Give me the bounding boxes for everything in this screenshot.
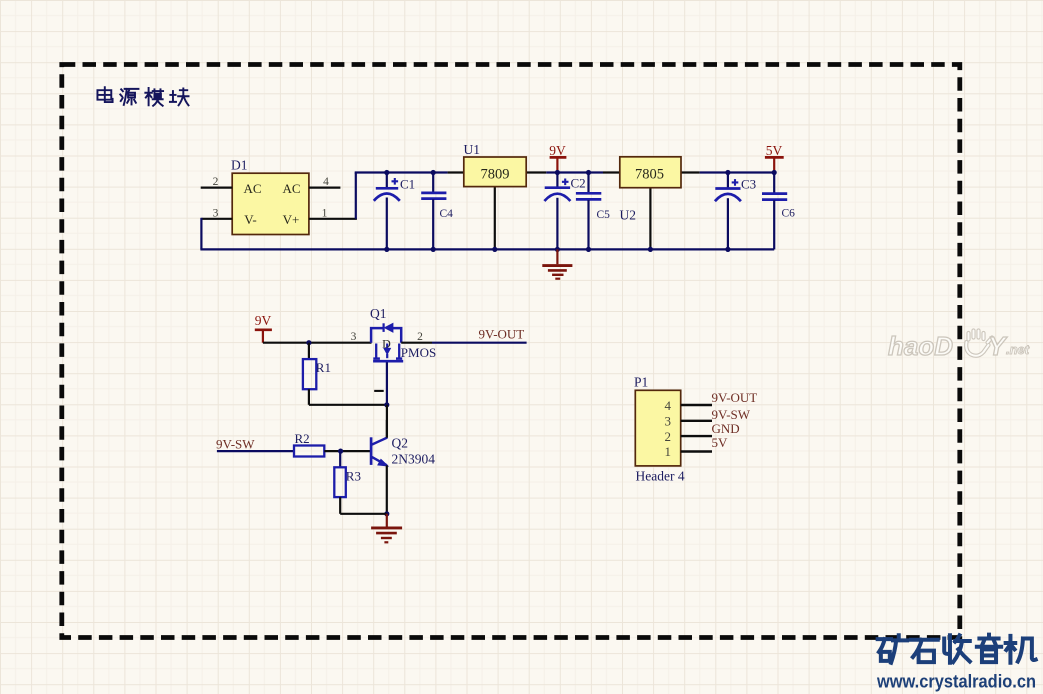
svg-text:V-: V-	[244, 212, 257, 227]
transistor Q2 2N3904	[371, 435, 435, 466]
svg-text:Y: Y	[988, 331, 1008, 361]
net label 5V (P1)	[712, 435, 729, 450]
svg-text:www.crystalradio.cn: www.crystalradio.cn	[876, 672, 1036, 692]
svg-text:5V: 5V	[712, 435, 729, 450]
svg-text:Q1: Q1	[370, 306, 387, 321]
svg-text:C1: C1	[400, 176, 415, 191]
svg-text:R3: R3	[346, 469, 361, 484]
power port 5V	[765, 143, 784, 175]
D1 pin 3	[201, 207, 232, 219]
wire Q1 gate down to Q2 collector	[386, 362, 388, 437]
svg-text:9V: 9V	[255, 313, 272, 328]
svg-text:9V: 9V	[549, 143, 566, 158]
svg-text:5V: 5V	[766, 143, 783, 158]
net label GND (P1)	[712, 421, 740, 436]
net label 9V-SW	[216, 437, 255, 452]
svg-text:9V-SW: 9V-SW	[216, 437, 255, 452]
wire top rail segment B	[546, 171, 603, 173]
D1 pin 2	[201, 176, 233, 188]
watermark haoboy.net	[888, 331, 1030, 362]
svg-text:U2: U2	[620, 208, 637, 223]
D1 pin 4	[309, 176, 341, 188]
voltage regulator U1 7809	[448, 142, 547, 252]
net label 9V-OUT	[479, 326, 525, 341]
wire R2 to Q2 base	[324, 449, 370, 454]
svg-text:R2: R2	[295, 431, 310, 446]
wire R3 bottom to emitter node	[340, 513, 387, 515]
P1 pin 2	[681, 435, 712, 437]
bottom-right logo 矿石收音机	[878, 635, 1036, 663]
svg-text:9V-OUT: 9V-OUT	[479, 326, 525, 341]
svg-text:4: 4	[323, 176, 329, 188]
svg-text:Header 4: Header 4	[636, 469, 685, 484]
net label 9V-OUT (P1)	[712, 390, 758, 405]
wire R1 bottom to gate node	[309, 402, 390, 407]
capacitor C5	[576, 170, 610, 252]
wire D1 pin1 up to top rail	[355, 173, 357, 219]
resistor R1	[303, 343, 331, 405]
P1 pin 1	[681, 450, 712, 452]
wire 9V to Q1 pin 3	[263, 331, 372, 346]
title 电源模块	[97, 87, 188, 106]
sheet dashed border frame	[62, 65, 960, 638]
power port 9V (lower)	[255, 313, 272, 343]
svg-text:2: 2	[213, 176, 219, 188]
svg-text:7809: 7809	[481, 167, 510, 183]
power port 9V (top)	[549, 143, 566, 175]
wire top rail segment C	[700, 171, 775, 173]
P1 pin 4	[681, 404, 712, 406]
svg-text:U1: U1	[464, 142, 481, 157]
svg-text:AC: AC	[243, 181, 261, 196]
svg-text:PMOS: PMOS	[401, 345, 436, 360]
capacitor C4	[421, 170, 453, 252]
svg-text:D1: D1	[231, 158, 248, 173]
svg-text:2N3904: 2N3904	[392, 451, 436, 466]
svg-text:Q2: Q2	[392, 435, 409, 450]
svg-text:AC: AC	[282, 181, 300, 196]
wire Q1 pin 2 to 9V-OUT	[401, 331, 526, 343]
svg-text:C6: C6	[782, 208, 796, 220]
capacitor C1	[374, 170, 415, 252]
bottom-right url www.crystalradio.cn	[876, 672, 1036, 692]
bridge rectifier D1	[231, 158, 309, 235]
svg-text:4: 4	[665, 398, 672, 413]
Q2 collector pin	[386, 420, 388, 438]
svg-text:GND: GND	[712, 421, 740, 436]
wire bottom rail	[200, 248, 774, 250]
connector P1 Header 4	[634, 375, 685, 484]
svg-text:2: 2	[665, 429, 672, 444]
transistor Q1 PMOS	[370, 306, 436, 361]
wire D1 pin3 down to bottom rail	[200, 218, 202, 250]
svg-text:.net: .net	[1006, 342, 1030, 357]
ground (top, below C2)	[542, 249, 572, 278]
svg-text:V+: V+	[283, 212, 300, 227]
net label 9V-SW (P1)	[712, 407, 751, 422]
svg-text:D: D	[382, 336, 391, 350]
capacitor C2	[544, 173, 585, 252]
capacitor C6	[762, 173, 795, 250]
dash mark near gate	[374, 390, 384, 392]
svg-text:1: 1	[665, 444, 672, 459]
Q2 emitter pin down	[384, 465, 389, 516]
resistor R2	[294, 431, 324, 457]
resistor R3	[334, 451, 361, 514]
svg-text:C3: C3	[741, 176, 756, 191]
svg-text:7805: 7805	[635, 167, 664, 183]
svg-text:C5: C5	[597, 209, 611, 221]
svg-text:9V-OUT: 9V-OUT	[712, 390, 758, 405]
capacitor C3	[715, 170, 756, 252]
D1 pin 1	[309, 207, 357, 219]
svg-text:3: 3	[351, 331, 357, 343]
ground (lower)	[371, 514, 402, 543]
svg-text:1: 1	[322, 207, 328, 219]
wire top rail segment A	[355, 171, 448, 173]
svg-text:2: 2	[417, 331, 423, 343]
svg-text:P1: P1	[634, 375, 648, 390]
svg-text:haoD: haoD	[888, 331, 953, 361]
P1 pin 3	[681, 420, 712, 422]
svg-text:3: 3	[665, 414, 672, 429]
svg-text:R1: R1	[316, 360, 331, 375]
voltage regulator U2 7805	[603, 157, 700, 252]
wire 9V-SW to R2	[217, 450, 294, 452]
svg-text:C2: C2	[571, 176, 586, 191]
svg-text:9V-SW: 9V-SW	[712, 407, 751, 422]
svg-text:C4: C4	[440, 208, 454, 220]
svg-text:3: 3	[213, 207, 219, 219]
